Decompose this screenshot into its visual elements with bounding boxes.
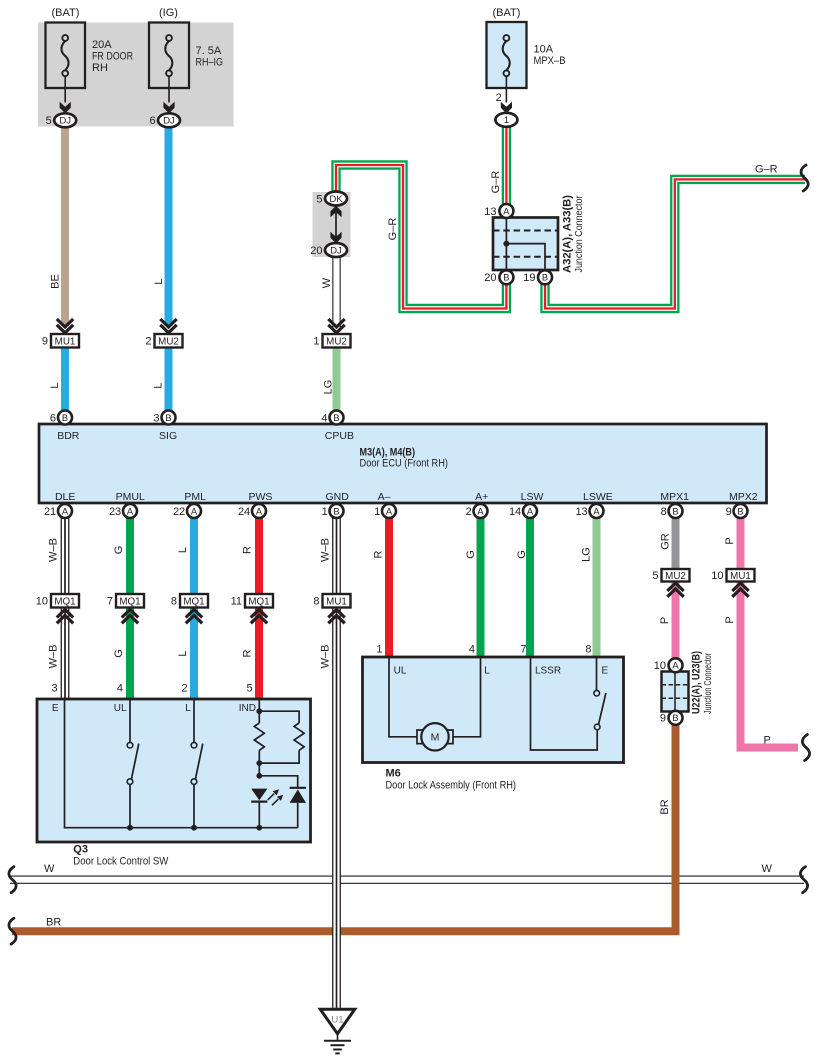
svg-text:A: A xyxy=(386,506,393,516)
double arrow DK to DJ xyxy=(335,208,337,240)
svg-text:L: L xyxy=(177,650,189,656)
connector 5 DJ xyxy=(54,113,76,127)
svg-text:4: 4 xyxy=(321,412,327,424)
svg-text:W: W xyxy=(762,863,773,875)
svg-text:CPUB: CPUB xyxy=(325,430,354,442)
svg-text:P: P xyxy=(764,735,771,747)
wire W horizontal bus xyxy=(10,876,804,884)
wire G-R from fuse MPX-B to junction A32 pin 13 xyxy=(502,126,511,206)
wire G from ECU PMUL to MQ1 xyxy=(126,517,134,594)
connector 1 MU2 xyxy=(328,319,344,333)
svg-text:L: L xyxy=(185,703,191,714)
wire P from ECU MPX2 to MU1 xyxy=(737,517,745,569)
wire W-B from MU1 to ground U1 xyxy=(332,608,341,1010)
svg-text:10A: 10A xyxy=(534,44,554,56)
svg-text:P: P xyxy=(724,616,736,623)
connector 11 MQ1 xyxy=(245,594,273,608)
svg-text:L: L xyxy=(177,547,189,553)
svg-text:MPX1: MPX1 xyxy=(660,491,689,503)
svg-text:BR: BR xyxy=(659,799,671,814)
svg-text:FR DOOR: FR DOOR xyxy=(92,51,133,63)
svg-text:9: 9 xyxy=(42,336,48,348)
svg-text:M6: M6 xyxy=(386,767,401,779)
svg-text:R: R xyxy=(373,550,385,558)
svg-text:3: 3 xyxy=(153,412,159,424)
ECU pin 3 B SIG xyxy=(162,411,176,425)
svg-text:G: G xyxy=(465,550,477,559)
wire G-R from junction A32 pin 20 to DK(5) xyxy=(336,165,506,309)
pin 19 B of junction connector xyxy=(538,270,552,284)
svg-text:A–: A– xyxy=(378,491,391,503)
fuse 20A FR DOOR RH xyxy=(46,23,86,89)
svg-text:4: 4 xyxy=(117,683,123,695)
wire E branch inside Q3 xyxy=(65,699,298,828)
svg-text:2: 2 xyxy=(466,506,472,518)
wire break BR left xyxy=(9,918,16,944)
connector 2 MU2 xyxy=(160,319,176,333)
svg-text:B: B xyxy=(333,506,339,516)
junction node UL xyxy=(127,825,133,831)
pin 13 A of junction connector xyxy=(499,204,513,218)
svg-text:20: 20 xyxy=(484,272,496,284)
svg-text:PMUL: PMUL xyxy=(116,491,145,503)
svg-text:B: B xyxy=(333,413,339,423)
svg-text:8: 8 xyxy=(661,506,667,518)
ECU pin 4 B CPUB xyxy=(330,411,344,425)
svg-text:W: W xyxy=(44,863,55,875)
junction node IND top xyxy=(256,708,262,714)
svg-text:G: G xyxy=(113,649,125,658)
svg-text:UL: UL xyxy=(114,703,127,714)
wire L from ECU PML to MQ1 xyxy=(190,517,198,594)
svg-text:9: 9 xyxy=(726,506,732,518)
svg-text:11: 11 xyxy=(231,596,242,608)
svg-text:BDR: BDR xyxy=(57,430,80,442)
svg-text:W: W xyxy=(321,277,333,288)
svg-text:5: 5 xyxy=(46,115,52,127)
svg-text:DJ: DJ xyxy=(330,245,342,256)
svg-text:1: 1 xyxy=(374,506,380,518)
connector 9 MU1 xyxy=(57,319,73,333)
wire L from MQ1 to Q3 pin 2 xyxy=(190,608,198,700)
svg-text:6: 6 xyxy=(149,115,155,127)
connector 8 MQ1 xyxy=(180,594,208,608)
svg-text:DJ: DJ xyxy=(163,116,175,127)
svg-text:1: 1 xyxy=(376,643,382,655)
svg-text:7. 5A: 7. 5A xyxy=(196,45,222,57)
switch LSSR inside M6 xyxy=(596,657,598,690)
connector 1 below fuse xyxy=(495,113,517,127)
svg-text:14: 14 xyxy=(509,506,521,518)
svg-text:MQ1: MQ1 xyxy=(248,596,269,607)
connector 7 MQ1 xyxy=(116,594,144,608)
svg-text:IND: IND xyxy=(239,703,256,714)
svg-text:L: L xyxy=(153,278,165,284)
svg-text:A: A xyxy=(593,506,600,516)
svg-text:MQ1: MQ1 xyxy=(183,596,204,607)
wire G from ECU LSW to M6 pin 7 xyxy=(526,517,534,657)
wire G-R from junction A32 pin 19 to right edge xyxy=(545,179,805,308)
svg-text:LG: LG xyxy=(323,380,335,395)
wire L from MU2 to ECU pin SIG xyxy=(165,348,173,412)
svg-text:Door ECU (Front RH): Door ECU (Front RH) xyxy=(360,457,449,469)
pin 10 A of junction connector U22 xyxy=(669,658,683,672)
connector 10 MU1 xyxy=(727,569,755,582)
svg-text:MU1: MU1 xyxy=(730,571,751,582)
wire R from ECU A- to M6 pin 1 xyxy=(385,517,393,657)
svg-text:R: R xyxy=(242,546,254,554)
connector 5 DK xyxy=(325,192,347,206)
svg-text:PML: PML xyxy=(184,491,206,503)
junction node IND mid xyxy=(256,760,262,766)
svg-text:A+: A+ xyxy=(475,491,488,503)
wire L from MU1 to ECU pin BDR xyxy=(61,348,69,412)
svg-text:5: 5 xyxy=(246,683,252,695)
svg-text:LSWE: LSWE xyxy=(583,491,613,503)
svg-text:DK: DK xyxy=(329,194,343,205)
svg-text:MPX–B: MPX–B xyxy=(534,55,566,67)
svg-text:2: 2 xyxy=(496,92,502,104)
svg-text:LSW: LSW xyxy=(521,491,544,503)
svg-text:(BAT): (BAT) xyxy=(52,7,80,19)
svg-text:LSSR: LSSR xyxy=(535,666,561,677)
wire P from MU1 to right edge xyxy=(741,582,799,748)
wire G from ECU A+ to M6 pin 4 xyxy=(477,517,485,657)
svg-text:13: 13 xyxy=(575,506,587,518)
wire LG from MU2 to ECU pin CPUB xyxy=(333,348,341,412)
svg-text:BE: BE xyxy=(50,274,62,289)
connector 5 MU2 xyxy=(662,569,690,582)
wire P from MU2 to junction U22 pin 10 xyxy=(672,582,680,660)
junction node IND led xyxy=(256,773,262,779)
motor assembly M6 Door Lock Assembly (Front RH) xyxy=(363,657,624,763)
svg-text:A: A xyxy=(127,506,134,516)
switch assembly Q3 Door Lock Control SW xyxy=(37,699,311,842)
fuse 10A MPX-B xyxy=(487,22,527,88)
junction node A32 xyxy=(503,241,509,247)
svg-text:B: B xyxy=(62,413,68,423)
svg-text:A32(A), A33(B): A32(A), A33(B) xyxy=(562,195,574,273)
svg-text:1: 1 xyxy=(313,336,319,348)
svg-text:8: 8 xyxy=(313,596,319,608)
svg-text:A: A xyxy=(477,506,484,516)
svg-text:G–R: G–R xyxy=(755,164,778,176)
wire W-B from ECU GND to MU1 xyxy=(332,517,341,594)
wire break G-R right xyxy=(801,165,808,191)
connector 6 DJ xyxy=(158,113,180,127)
svg-text:SIG: SIG xyxy=(159,430,177,442)
svg-text:MU1: MU1 xyxy=(326,596,347,607)
wire W-B from MQ1 to Q3 pin 3 xyxy=(61,608,70,700)
svg-text:G–R: G–R xyxy=(387,218,399,241)
svg-text:MU1: MU1 xyxy=(55,336,76,347)
svg-text:2: 2 xyxy=(145,336,151,348)
svg-text:LG: LG xyxy=(581,547,593,562)
wire BE from connector DJ(5) to MU1 xyxy=(61,124,69,326)
wire break W right xyxy=(800,867,807,893)
svg-text:E: E xyxy=(601,666,608,677)
svg-text:21: 21 xyxy=(44,506,56,518)
svg-text:8: 8 xyxy=(171,596,177,608)
svg-text:7: 7 xyxy=(107,596,113,608)
ECU pin 6 B BDR xyxy=(58,411,72,425)
connector 8 MU1 xyxy=(323,594,351,608)
svg-text:BR: BR xyxy=(46,917,61,929)
svg-text:U22(A), U23(B): U22(A), U23(B) xyxy=(691,651,703,714)
LED indicator inside Q3 xyxy=(251,789,267,801)
svg-text:Junction Connector: Junction Connector xyxy=(573,195,585,272)
svg-text:9: 9 xyxy=(660,713,666,725)
svg-text:2: 2 xyxy=(181,683,187,695)
svg-text:L: L xyxy=(484,666,490,677)
svg-text:PWS: PWS xyxy=(248,491,272,503)
pin 9 B of junction connector U22 xyxy=(669,711,683,725)
svg-text:GND: GND xyxy=(326,491,350,503)
svg-text:MQ1: MQ1 xyxy=(54,596,75,607)
svg-text:P: P xyxy=(724,537,736,544)
resistor R2 (IND right) xyxy=(294,723,304,750)
wire break W left xyxy=(9,867,16,893)
svg-text:A: A xyxy=(191,506,198,516)
svg-text:13: 13 xyxy=(484,206,496,218)
svg-text:B: B xyxy=(542,273,548,283)
wire LG from ECU LSWE to M6 pin 8 xyxy=(593,517,601,657)
connector panel DK/DJ (gray) xyxy=(313,192,351,257)
svg-text:A: A xyxy=(672,661,679,671)
svg-text:G–R: G–R xyxy=(490,171,502,194)
svg-text:UL: UL xyxy=(394,666,407,677)
junction node L xyxy=(191,825,197,831)
svg-text:Junction Connector: Junction Connector xyxy=(702,653,714,714)
svg-text:(IG): (IG) xyxy=(159,7,178,19)
svg-text:1: 1 xyxy=(504,115,509,126)
svg-text:DLE: DLE xyxy=(55,491,75,503)
svg-text:W–B: W–B xyxy=(48,645,60,669)
switch L inside Q3 xyxy=(193,699,195,742)
motor M xyxy=(417,730,453,744)
svg-text:MU2: MU2 xyxy=(665,571,686,582)
svg-text:MU2: MU2 xyxy=(158,336,179,347)
svg-text:L: L xyxy=(153,382,165,388)
svg-text:RH–IG: RH–IG xyxy=(196,57,224,69)
junction node LED bottom xyxy=(256,825,262,831)
fuse block panel (gray) xyxy=(38,23,234,127)
svg-text:24: 24 xyxy=(238,506,250,518)
svg-text:19: 19 xyxy=(523,272,535,284)
svg-text:W–B: W–B xyxy=(320,645,332,669)
connector 20 DJ xyxy=(325,243,347,257)
svg-text:MQ1: MQ1 xyxy=(119,596,140,607)
svg-text:B: B xyxy=(737,506,743,516)
fuse 7.5A RH-IG xyxy=(149,23,189,89)
connector 10 MQ1 xyxy=(51,594,79,608)
svg-text:A: A xyxy=(527,506,534,516)
svg-text:A: A xyxy=(503,206,510,216)
svg-text:P: P xyxy=(659,617,671,624)
wire GR from ECU MPX1 to MU2 xyxy=(672,517,680,569)
svg-text:10: 10 xyxy=(36,596,48,608)
svg-text:DJ: DJ xyxy=(59,116,71,127)
wire R from MQ1 to Q3 pin 5 xyxy=(255,608,263,700)
wire W-B from ECU DLE to MQ1 xyxy=(61,517,70,594)
door ECU M3(A), M4(B) (Front RH) xyxy=(39,424,767,503)
junction connector A32(A), A33(B) xyxy=(493,218,558,271)
svg-text:E: E xyxy=(52,703,59,714)
wire L from connector DJ(6) to MU2 xyxy=(165,124,173,326)
svg-text:R: R xyxy=(242,649,254,657)
svg-text:7: 7 xyxy=(520,643,526,655)
svg-text:G: G xyxy=(113,546,125,555)
ground U1 xyxy=(320,1009,355,1034)
svg-text:L: L xyxy=(49,382,61,388)
svg-text:B: B xyxy=(672,713,678,723)
svg-text:5: 5 xyxy=(652,570,658,582)
svg-text:G: G xyxy=(516,550,528,559)
pin 20 B of junction connector xyxy=(499,270,513,284)
svg-text:B: B xyxy=(672,506,678,516)
svg-text:10: 10 xyxy=(654,660,666,672)
wire BR from junction U22 pin 9 to left edge xyxy=(12,723,676,931)
svg-text:MU2: MU2 xyxy=(326,336,347,347)
motor M wiring inside M6 xyxy=(389,657,481,737)
wire R from ECU PWS to MQ1 xyxy=(255,517,263,594)
resistor R1 (IND left) xyxy=(254,723,264,750)
svg-text:20A: 20A xyxy=(92,39,112,51)
svg-text:A: A xyxy=(256,506,263,516)
svg-text:23: 23 xyxy=(109,506,121,518)
svg-text:Q3: Q3 xyxy=(73,843,88,855)
svg-text:3: 3 xyxy=(51,683,57,695)
svg-text:5: 5 xyxy=(316,193,322,205)
svg-text:U1: U1 xyxy=(331,1015,343,1026)
wire break P right xyxy=(802,735,809,761)
svg-text:RH: RH xyxy=(92,62,108,74)
svg-text:W–B: W–B xyxy=(320,538,332,562)
svg-text:4: 4 xyxy=(469,643,475,655)
diode inside Q3 xyxy=(290,789,306,803)
svg-text:20: 20 xyxy=(310,245,322,257)
svg-text:8: 8 xyxy=(585,643,591,655)
svg-text:M: M xyxy=(431,732,440,744)
svg-text:MPX2: MPX2 xyxy=(729,491,758,503)
wire G from MQ1 to Q3 pin 4 xyxy=(126,608,134,700)
svg-text:A: A xyxy=(62,506,69,516)
svg-text:1: 1 xyxy=(322,506,328,518)
IND branch wiring xyxy=(259,699,299,828)
svg-text:22: 22 xyxy=(173,506,185,518)
svg-text:(BAT): (BAT) xyxy=(493,7,521,19)
svg-text:Door Lock Assembly (Front RH): Door Lock Assembly (Front RH) xyxy=(386,779,517,791)
svg-text:10: 10 xyxy=(711,570,723,582)
svg-text:GR: GR xyxy=(660,533,672,550)
svg-text:B: B xyxy=(165,413,171,423)
svg-text:W–B: W–B xyxy=(48,538,60,562)
junction connector U22(A), U23(B) xyxy=(662,672,689,712)
svg-text:6: 6 xyxy=(50,412,56,424)
svg-text:Door Lock Control SW: Door Lock Control SW xyxy=(73,855,169,867)
switch UL inside Q3 xyxy=(129,699,131,742)
svg-text:B: B xyxy=(503,273,509,283)
wire W from DJ(20) to MU2 xyxy=(332,255,340,331)
